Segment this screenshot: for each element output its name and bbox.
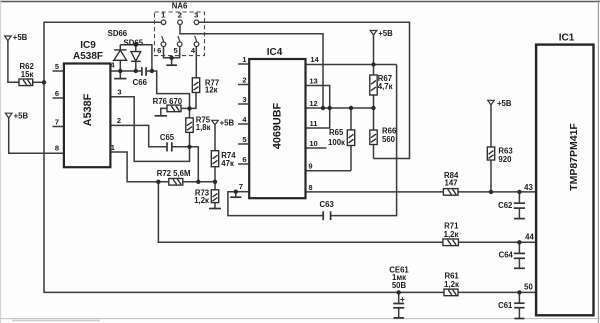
svg-text:1: 1 — [242, 55, 246, 64]
svg-text:A538F: A538F — [82, 93, 94, 126]
svg-text:47к: 47к — [221, 159, 234, 168]
svg-text:C65: C65 — [160, 133, 175, 142]
svg-text:12: 12 — [309, 99, 317, 108]
svg-text:+5В: +5В — [378, 29, 393, 38]
svg-text:100к: 100к — [328, 138, 345, 147]
svg-text:NA6: NA6 — [172, 1, 188, 10]
svg-text:+5В: +5В — [220, 119, 235, 128]
svg-text:A538F: A538F — [73, 51, 103, 62]
svg-text:12к: 12к — [205, 86, 218, 95]
svg-text:8: 8 — [55, 143, 59, 152]
svg-text:C66: C66 — [133, 78, 148, 87]
svg-text:1,2к: 1,2к — [194, 196, 209, 205]
svg-text:9: 9 — [308, 162, 312, 171]
svg-text:6: 6 — [55, 89, 59, 98]
svg-text:50: 50 — [524, 282, 533, 291]
svg-text:6: 6 — [242, 155, 246, 164]
svg-text:1,2к: 1,2к — [444, 280, 459, 289]
svg-text:R72 5,6M: R72 5,6M — [157, 169, 191, 178]
svg-text:2: 2 — [242, 75, 246, 84]
svg-text:11: 11 — [310, 119, 318, 128]
svg-text:SD65: SD65 — [124, 39, 144, 48]
svg-text:3: 3 — [117, 87, 121, 96]
svg-text:R76 670: R76 670 — [153, 97, 183, 106]
svg-text:TMP87PM41F: TMP87PM41F — [568, 123, 580, 191]
svg-text:43: 43 — [524, 183, 533, 192]
svg-text:5: 5 — [242, 135, 246, 144]
svg-text:3: 3 — [242, 95, 246, 104]
svg-text:2: 2 — [117, 116, 121, 125]
svg-text:+5В: +5В — [497, 99, 512, 108]
svg-text:7: 7 — [55, 117, 59, 126]
svg-text:7: 7 — [239, 182, 243, 191]
svg-text:R65: R65 — [329, 128, 344, 137]
svg-text:IC9: IC9 — [80, 40, 96, 51]
svg-text:C62: C62 — [498, 201, 513, 210]
svg-text:50В: 50В — [392, 281, 407, 290]
svg-text:C61: C61 — [498, 301, 513, 310]
svg-text:5: 5 — [55, 62, 59, 71]
svg-text:10: 10 — [309, 139, 317, 148]
svg-text:1: 1 — [111, 143, 115, 152]
svg-text:1,2к: 1,2к — [444, 230, 459, 239]
svg-text:C63: C63 — [320, 200, 335, 209]
svg-text:C64: C64 — [499, 251, 514, 260]
svg-text:2: 2 — [178, 10, 182, 19]
svg-text:+5В: +5В — [14, 112, 29, 121]
svg-text:1,8к: 1,8к — [196, 123, 211, 132]
svg-text:14: 14 — [310, 55, 319, 64]
svg-text:3: 3 — [194, 10, 198, 19]
svg-text:560: 560 — [382, 135, 396, 144]
svg-text:15к: 15к — [21, 70, 34, 79]
svg-text:147: 147 — [444, 179, 457, 188]
svg-text:IC4: IC4 — [267, 47, 283, 58]
svg-text:6: 6 — [157, 46, 161, 55]
svg-text:13: 13 — [309, 77, 317, 86]
svg-text:+5В: +5В — [13, 33, 28, 42]
svg-text:4,7к: 4,7к — [378, 82, 393, 91]
svg-text:5: 5 — [174, 46, 178, 55]
svg-text:920: 920 — [498, 155, 512, 164]
svg-text:1: 1 — [161, 10, 165, 19]
svg-text:8: 8 — [308, 183, 312, 192]
svg-text:44: 44 — [525, 232, 534, 241]
svg-text:SD66: SD66 — [108, 29, 128, 38]
svg-text:4069UBF: 4069UBF — [271, 102, 283, 149]
svg-text:IC1: IC1 — [559, 33, 575, 44]
